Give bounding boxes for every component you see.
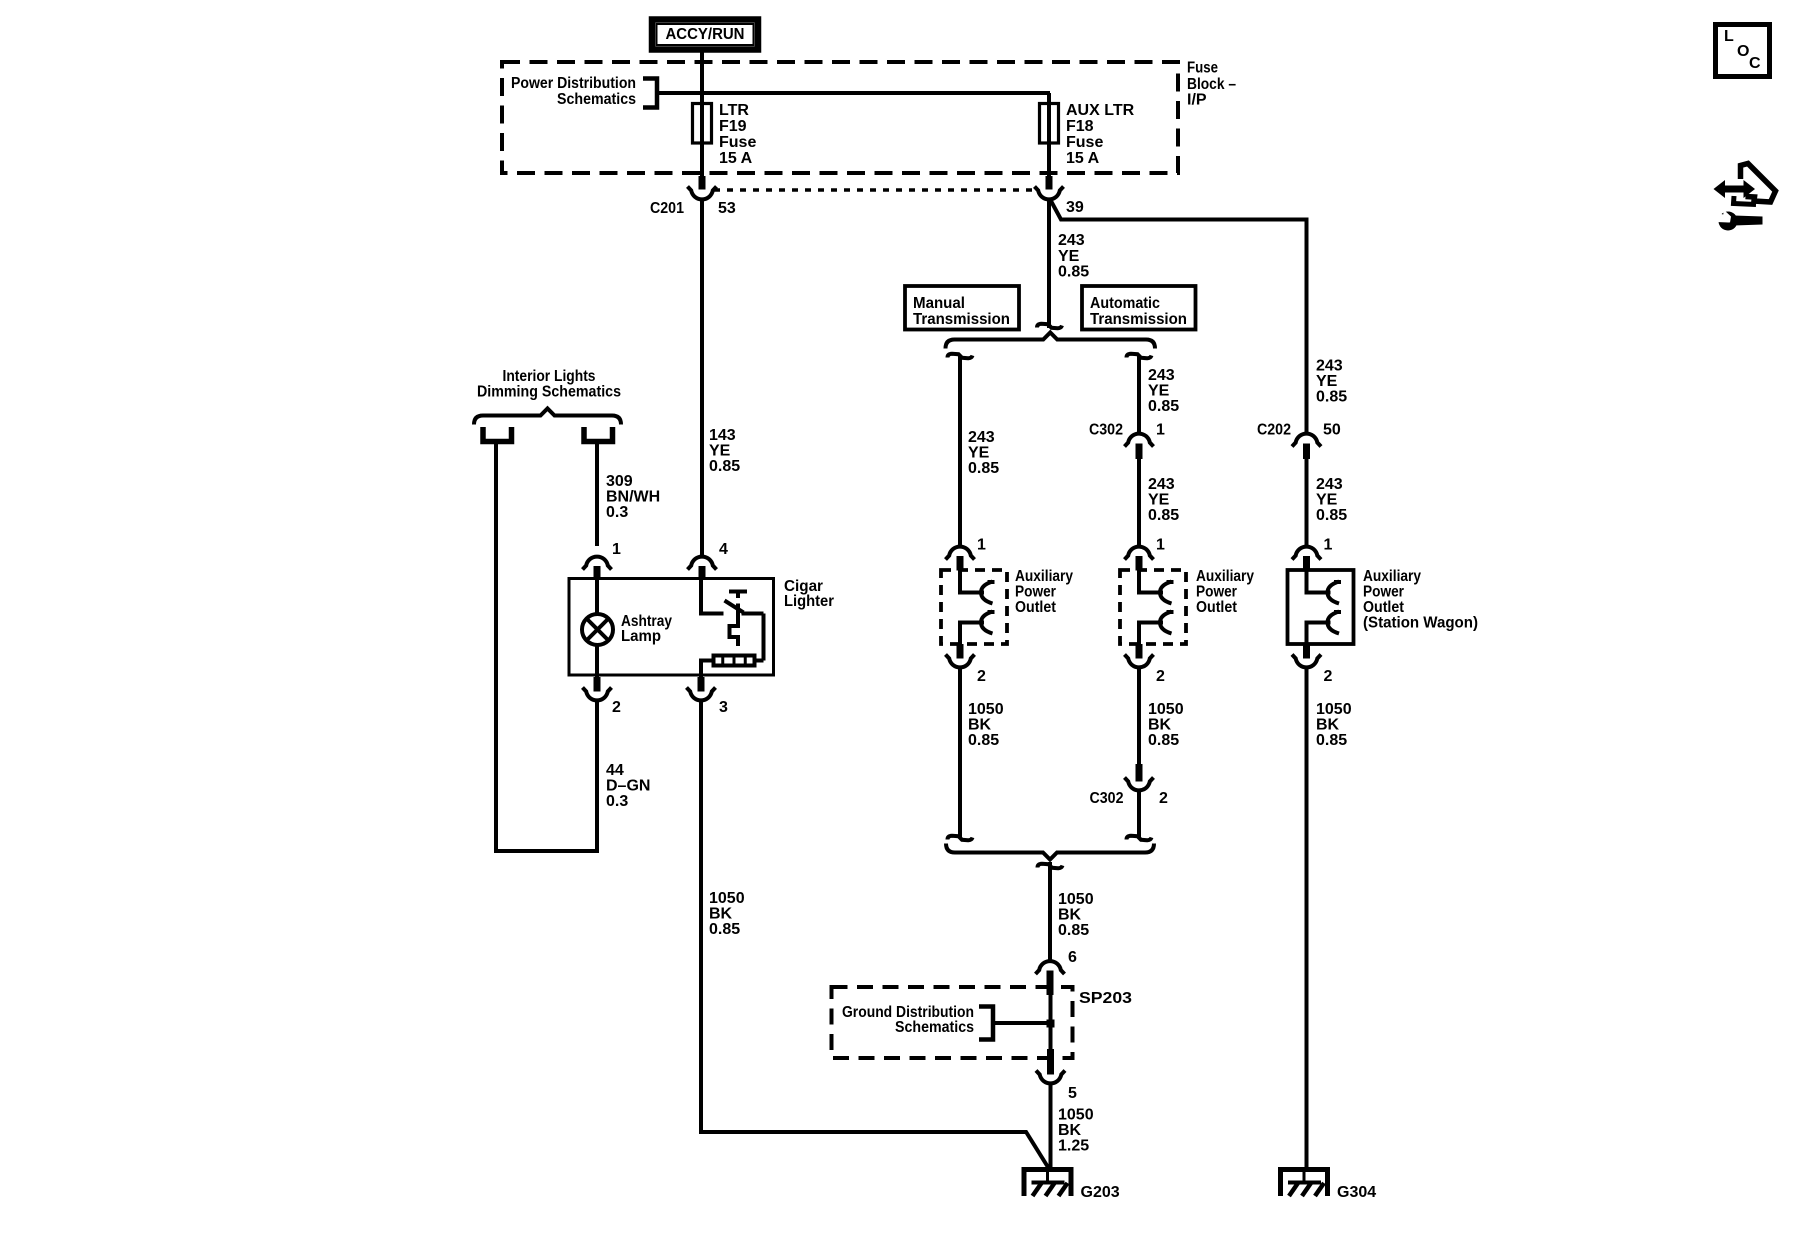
splice SP203 dashed box: [832, 987, 1073, 1058]
branch wire to station wagon outlet: [1051, 201, 1307, 433]
wire manual branch 243 YE: [958, 356, 962, 546]
wire C202 to wagon outlet: [1305, 458, 1309, 546]
svg-text:1050: 1050: [1058, 1107, 1094, 1124]
svg-text:YE: YE: [968, 445, 990, 462]
wire 309 BN/WH to ashtray: [595, 442, 599, 547]
svg-text:Fuse: Fuse: [1066, 134, 1103, 151]
interior lights stub right: [584, 427, 613, 442]
svg-text:0.85: 0.85: [1148, 732, 1179, 749]
svg-text:Power: Power: [1015, 584, 1056, 601]
break symbol automatic branch bottom: [1127, 836, 1152, 840]
connector SP203 pin 5: [1047, 1049, 1054, 1075]
ground G203: [1024, 1170, 1071, 1197]
svg-text:1: 1: [612, 541, 621, 558]
svg-text:G304: G304: [1337, 1184, 1376, 1201]
splice SP203 wire: [1049, 987, 1053, 1050]
svg-text:Interior Lights: Interior Lights: [503, 368, 596, 385]
svg-text:Lamp: Lamp: [621, 628, 661, 645]
svg-text:Dimming Schematics: Dimming Schematics: [477, 384, 621, 401]
connector C201 pin 53: [699, 176, 706, 190]
svg-text:243: 243: [1058, 232, 1085, 249]
svg-text:Manual: Manual: [913, 295, 965, 312]
connector cigar pin 4: [688, 557, 717, 570]
svg-text:F18: F18: [1066, 118, 1094, 135]
svg-text:243: 243: [968, 429, 995, 446]
svg-text:F19: F19: [719, 118, 747, 135]
svg-text:2: 2: [1156, 668, 1165, 685]
svg-text:2: 2: [1159, 790, 1168, 807]
connector C201 pin 39: [1046, 176, 1053, 190]
svg-text:243: 243: [1148, 367, 1175, 384]
interior lights stub left: [483, 427, 512, 442]
svg-text:2: 2: [977, 668, 986, 685]
svg-text:YE: YE: [1148, 492, 1170, 509]
svg-text:15 A: 15 A: [719, 150, 753, 167]
svg-text:Auxiliary: Auxiliary: [1015, 568, 1073, 585]
wire 1050 BK merged: [1048, 862, 1052, 960]
wire automatic branch to C302: [1137, 356, 1141, 433]
svg-text:0.3: 0.3: [606, 504, 628, 521]
fuse F19 LTR 15A: [693, 104, 712, 144]
interior lights brace: [474, 409, 621, 425]
break symbol manual branch bottom: [948, 836, 973, 840]
svg-text:1050: 1050: [1148, 701, 1184, 718]
svg-text:BK: BK: [1148, 717, 1172, 734]
svg-text:44: 44: [606, 762, 624, 779]
svg-text:Lighter: Lighter: [784, 593, 834, 610]
svg-text:C: C: [1749, 55, 1761, 72]
connector C302 pin 1: [1125, 434, 1154, 447]
svg-text:0.85: 0.85: [1058, 264, 1089, 281]
svg-text:SP203: SP203: [1079, 990, 1132, 1007]
wire 143 YE to cigar lighter: [700, 201, 704, 556]
svg-text:1: 1: [1156, 537, 1165, 554]
svg-text:1050: 1050: [1316, 701, 1352, 718]
svg-text:YE: YE: [1058, 248, 1080, 265]
svg-text:BN/WH: BN/WH: [606, 489, 660, 506]
LOC reference box: [1716, 25, 1770, 77]
svg-text:0.85: 0.85: [1148, 507, 1179, 524]
svg-text:1: 1: [977, 537, 986, 554]
cigar lighter element: [699, 579, 703, 614]
svg-text:2: 2: [1324, 668, 1333, 685]
connector cigar pin 2: [594, 677, 601, 692]
svg-text:YE: YE: [1316, 492, 1338, 509]
svg-text:0.85: 0.85: [709, 921, 740, 938]
svg-text:0.85: 0.85: [968, 460, 999, 477]
wire 1050 BK to G203: [1049, 1085, 1053, 1170]
auxiliary power outlet (manual): [946, 547, 975, 560]
svg-text:53: 53: [718, 200, 736, 217]
connector cigar pin 3: [698, 677, 705, 692]
break symbol above split: [1037, 324, 1062, 328]
svg-text:C202: C202: [1257, 422, 1291, 439]
svg-text:15 A: 15 A: [1066, 150, 1100, 167]
wire AUX fuse to C201-39: [1047, 144, 1051, 177]
svg-text:0.85: 0.85: [1148, 398, 1179, 415]
svg-text:0.85: 0.85: [1316, 732, 1347, 749]
svg-text:AUX LTR: AUX LTR: [1066, 102, 1135, 119]
auxiliary power outlet (automatic): [1125, 547, 1154, 560]
svg-text:Outlet: Outlet: [1196, 599, 1238, 616]
svg-text:ACCY/RUN: ACCY/RUN: [666, 26, 745, 43]
svg-text:0.85: 0.85: [709, 458, 740, 475]
svg-text:L: L: [1724, 28, 1734, 45]
ground G304: [1281, 1170, 1328, 1197]
svg-text:YE: YE: [1148, 383, 1170, 400]
wire interior return left: [494, 442, 498, 854]
svg-text:0.3: 0.3: [606, 793, 628, 810]
svg-text:BK: BK: [1316, 717, 1340, 734]
svg-text:C302: C302: [1089, 422, 1123, 439]
svg-text:Automatic: Automatic: [1090, 295, 1160, 312]
svg-text:0.85: 0.85: [1316, 507, 1347, 524]
svg-text:5: 5: [1068, 1085, 1077, 1102]
svg-text:BK: BK: [968, 717, 992, 734]
svg-text:3: 3: [719, 699, 728, 716]
fuse block I/P dashed box: [502, 62, 1178, 173]
svg-text:LTR: LTR: [719, 102, 749, 119]
svg-text:243: 243: [1316, 476, 1343, 493]
svg-text:1050: 1050: [968, 701, 1004, 718]
svg-text:(Station Wagon): (Station Wagon): [1363, 615, 1478, 632]
svg-text:Outlet: Outlet: [1363, 599, 1405, 616]
svg-text:243: 243: [1316, 358, 1343, 375]
svg-text:I/P: I/P: [1187, 92, 1207, 109]
svg-text:YE: YE: [709, 443, 731, 460]
svg-text:Outlet: Outlet: [1015, 599, 1057, 616]
option box Automatic Transmission: [1082, 286, 1196, 330]
option box Manual Transmission: [905, 286, 1019, 330]
break symbol below merge: [1038, 864, 1063, 868]
svg-text:BK: BK: [709, 906, 733, 923]
dashed connector line C201: [714, 188, 1036, 192]
svg-text:Power: Power: [1363, 584, 1404, 601]
svg-text:39: 39: [1066, 199, 1084, 216]
svg-text:Power: Power: [1196, 584, 1237, 601]
svg-text:143: 143: [709, 427, 736, 444]
wire 243 YE from pin 39: [1047, 201, 1051, 328]
svg-text:Auxiliary: Auxiliary: [1363, 568, 1421, 585]
svg-text:Auxiliary: Auxiliary: [1196, 568, 1254, 585]
svg-text:0.85: 0.85: [1316, 389, 1347, 406]
power feed ACCY/RUN box: [652, 20, 758, 50]
svg-text:C302: C302: [1090, 790, 1124, 807]
svg-text:Transmission: Transmission: [1090, 311, 1187, 328]
split brace: [946, 333, 1156, 349]
wire 1050 BK automatic outlet: [1137, 669, 1141, 765]
svg-text:6: 6: [1068, 949, 1077, 966]
svg-text:0.85: 0.85: [968, 732, 999, 749]
ashtray lamp: [595, 579, 599, 615]
svg-text:2: 2: [612, 699, 621, 716]
svg-text:C201: C201: [650, 200, 684, 217]
cigar lighter box: [569, 579, 774, 676]
svg-text:243: 243: [1148, 476, 1175, 493]
svg-text:G203: G203: [1081, 1184, 1120, 1201]
svg-text:Schematics: Schematics: [895, 1019, 974, 1036]
svg-text:1: 1: [1156, 422, 1165, 439]
svg-text:Block –: Block –: [1187, 76, 1236, 93]
svg-text:Fuse: Fuse: [719, 134, 756, 151]
wire ACCY/RUN to fuse block: [700, 53, 704, 103]
break symbol automatic branch top: [1127, 354, 1152, 358]
svg-text:Schematics: Schematics: [557, 91, 636, 108]
svg-text:309: 309: [606, 473, 633, 490]
svg-text:YE: YE: [1316, 373, 1338, 390]
svg-text:0.85: 0.85: [1058, 922, 1089, 939]
wire fuse feed bus: [700, 91, 1050, 95]
wire C302-2 to merge: [1137, 792, 1141, 837]
svg-text:1.25: 1.25: [1058, 1138, 1089, 1155]
svg-text:O: O: [1737, 43, 1749, 60]
svg-text:BK: BK: [1058, 1122, 1082, 1139]
svg-text:Transmission: Transmission: [913, 311, 1010, 328]
svg-text:BK: BK: [1058, 907, 1082, 924]
service icon arrows and wrench: [1714, 180, 1756, 198]
svg-text:D–GN: D–GN: [606, 778, 650, 795]
connector C302 pin 2: [1136, 764, 1143, 782]
svg-text:Power Distribution: Power Distribution: [511, 75, 636, 92]
wire 44 D-GN from pin 2: [595, 702, 599, 853]
wire interior return bottom: [494, 849, 599, 853]
svg-text:Fuse: Fuse: [1187, 60, 1218, 77]
svg-text:1050: 1050: [1058, 891, 1094, 908]
svg-text:50: 50: [1323, 422, 1341, 439]
svg-text:4: 4: [719, 541, 728, 558]
wire 1050 BK from pin 3: [699, 702, 703, 1134]
connector C202 pin 50: [1292, 434, 1321, 447]
wire LTR fuse to C201: [700, 144, 704, 177]
wire pin3 run to G203: [699, 1130, 1027, 1134]
wire 1050 BK manual outlet: [958, 669, 962, 837]
connector cigar pin 1: [583, 557, 612, 570]
merge brace: [946, 844, 1154, 860]
connector SP203 pin 6: [1036, 961, 1065, 974]
wire 1050 BK wagon to G304: [1305, 669, 1309, 1170]
fuse F18 AUX LTR 15A: [1040, 104, 1059, 144]
svg-text:1: 1: [1324, 537, 1333, 554]
break symbol manual branch top: [948, 354, 973, 358]
auxiliary power outlet (station wagon): [1292, 547, 1321, 560]
wire C302 to outlet: [1137, 458, 1141, 546]
svg-text:1050: 1050: [709, 890, 745, 907]
